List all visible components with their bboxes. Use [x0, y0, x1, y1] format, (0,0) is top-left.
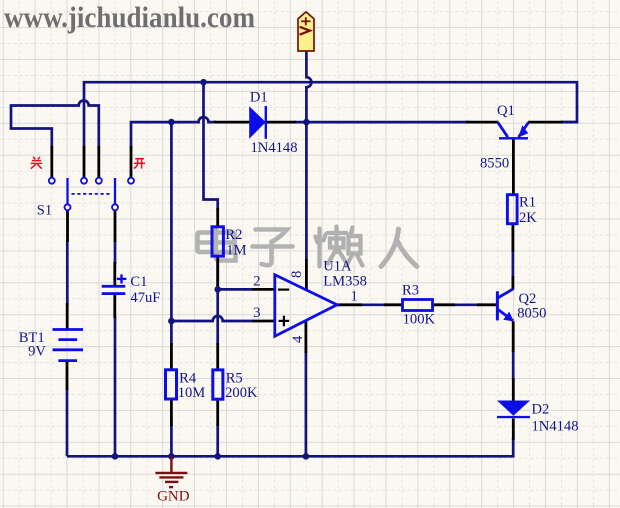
- wire R3 to Q2 base: [452, 303, 479, 306]
- label guan (off) red: [31, 157, 43, 169]
- svg-text:U1A: U1A: [323, 258, 352, 274]
- pin Q2 emitter lead down: [512, 321, 515, 352]
- svg-text:Q2: Q2: [519, 291, 537, 307]
- pin R1 bottom: [512, 224, 515, 252]
- switch S1: [49, 178, 134, 211]
- pin op-amp 3: [253, 320, 275, 323]
- op-amp U1A: [275, 275, 337, 336]
- pin T2 lead: [83, 146, 86, 178]
- svg-text:9V: 9V: [28, 344, 46, 360]
- junction dot rail / R5: [214, 453, 221, 460]
- junction dot R2 bottom / pin2 wire: [214, 286, 221, 293]
- wire long vertical from D1 junction down to R4: [170, 122, 173, 345]
- pin op-amp 4: [304, 321, 307, 353]
- pin BT1 bottom: [66, 361, 69, 390]
- wire R4 bottom to rail: [170, 424, 173, 456]
- transistor Q2: [496, 289, 514, 322]
- svg-text:S1: S1: [37, 203, 52, 219]
- watermark char zi: [253, 230, 293, 266]
- junction dot rail / R4 GND: [168, 453, 175, 460]
- wire T4 corner to D1 anode with junction and hop over R2 drop: [131, 117, 216, 148]
- wire vertical R2 bottom to R5 top: [216, 262, 219, 345]
- pin Q2 collector lead up: [512, 276, 515, 290]
- pin T1 lead: [50, 146, 53, 178]
- wire R2 top jog from rail junction: [204, 82, 218, 210]
- pin R3 right: [433, 303, 455, 306]
- junction dot D1 wire / long vertical: [168, 119, 175, 126]
- wire inverting node R2 bottom to pin 2: [218, 288, 254, 291]
- svg-text:R2: R2: [225, 227, 242, 243]
- watermark char ren: [381, 229, 417, 267]
- wire switch pole P2 down toward C1: [114, 240, 117, 264]
- pin BT1 top: [66, 303, 69, 329]
- svg-text:D2: D2: [532, 402, 550, 418]
- wire op-amp output to R3: [360, 303, 386, 306]
- pin P1 lead down: [66, 210, 69, 242]
- svg-text:www.jichudianlu.com: www.jichudianlu.com: [4, 1, 255, 34]
- svg-text:8: 8: [289, 271, 305, 278]
- svg-text:8050: 8050: [517, 306, 546, 322]
- pin P2 lead down: [114, 210, 117, 242]
- pin Q1 base lead down to R1: [512, 139, 515, 195]
- junction dot rail / op-amp pin4: [303, 453, 310, 460]
- junction dot rail / C1: [112, 453, 119, 460]
- svg-text:200K: 200K: [225, 385, 258, 401]
- svg-text:4: 4: [290, 335, 306, 343]
- diode D2: [497, 401, 530, 419]
- wire switch pole P1 down toward BT1: [66, 240, 69, 305]
- wire D1 cathode to Q1 collector: [294, 121, 470, 124]
- svg-text:LM358: LM358: [323, 273, 367, 289]
- pin C1 bottom: [113, 295, 116, 319]
- wire C1 bottom to rail: [114, 316, 117, 456]
- pin R4 top: [170, 343, 173, 369]
- pin R2 top: [216, 208, 219, 227]
- pin R3 left: [384, 303, 402, 306]
- svg-text:1: 1: [351, 289, 358, 305]
- wire op-amp pin4 down to rail: [305, 351, 308, 456]
- svg-text:C1: C1: [130, 274, 147, 290]
- svg-text:Q1: Q1: [497, 103, 515, 119]
- pin op-amp output 1: [337, 303, 362, 306]
- svg-text:2K: 2K: [519, 210, 537, 226]
- pin Q2 base lead: [477, 303, 497, 306]
- wire Q2 emitter to D2: [512, 350, 515, 380]
- pin op-amp 8: [305, 259, 308, 290]
- wire S1 T1-T3 with hop over T2 drop: [11, 101, 99, 149]
- wire top rail from switch corner to Q1 emitter corner: [84, 82, 577, 148]
- svg-text:47uF: 47uF: [130, 290, 160, 306]
- svg-text:D1: D1: [250, 89, 268, 105]
- pin Q1 emitter lead: [528, 121, 563, 124]
- pin D2 cathode lead: [512, 419, 515, 441]
- junction dot rail/R2 drop: [200, 79, 207, 86]
- junction dot D1 wire / V+ drop: [303, 119, 310, 126]
- pin D1 anode lead: [214, 121, 250, 124]
- capacitor C1: [102, 274, 127, 295]
- wire Q1 emitter side stub: [561, 121, 577, 124]
- wire BT1 bottom to rail: [66, 388, 69, 456]
- pin op-amp 2: [253, 288, 275, 291]
- resistor R1: [507, 195, 517, 224]
- resistor R2: [212, 227, 223, 256]
- svg-text:R3: R3: [402, 283, 419, 299]
- svg-text:8550: 8550: [480, 155, 509, 171]
- wire R1 bottom to Q2 collector: [512, 250, 515, 278]
- label kai (on) red: [134, 159, 145, 169]
- pin R2 bottom: [216, 257, 219, 290]
- svg-text:10M: 10M: [178, 385, 206, 401]
- pin T4 lead: [130, 146, 133, 178]
- svg-text:1N4148: 1N4148: [532, 419, 579, 435]
- pin R5 top: [216, 343, 219, 369]
- pin C1 top: [113, 262, 116, 286]
- transistor Q1: [498, 122, 529, 139]
- ground symbol GND: [155, 456, 187, 487]
- wire bottom ground rail: [67, 438, 513, 456]
- wire R5 bottom to rail: [216, 424, 219, 456]
- watermark char dian: [198, 228, 236, 261]
- svg-text:R1: R1: [519, 194, 536, 210]
- watermark char lan: [316, 227, 363, 267]
- resistor R4: [166, 370, 177, 399]
- pin D2 anode lead: [512, 378, 515, 401]
- wire V+ drop with hop over rail down to op-amp pin 8: [306, 51, 311, 261]
- svg-text:GND: GND: [157, 488, 190, 504]
- wire non-inverting net to pin 3 with hop over R2-R5 vertical: [171, 316, 254, 321]
- diode D1: [249, 106, 267, 139]
- pin D1 cathode lead: [267, 121, 297, 124]
- svg-text:2: 2: [253, 274, 260, 290]
- power symbol V+: [298, 12, 314, 51]
- svg-text:1N4148: 1N4148: [251, 140, 298, 156]
- svg-text:3: 3: [253, 305, 260, 321]
- resistor R3: [403, 300, 433, 311]
- pin T3 lead: [97, 146, 100, 178]
- pin R4 bottom: [170, 400, 173, 426]
- battery BT1: [53, 330, 84, 361]
- svg-text:100K: 100K: [403, 312, 436, 328]
- svg-text:1M: 1M: [226, 243, 246, 259]
- resistor R5: [213, 370, 223, 399]
- junction dot long vertical / pin3 wire: [168, 318, 175, 325]
- pin R5 bottom: [216, 400, 219, 426]
- pin Q1 collector lead: [466, 121, 498, 124]
